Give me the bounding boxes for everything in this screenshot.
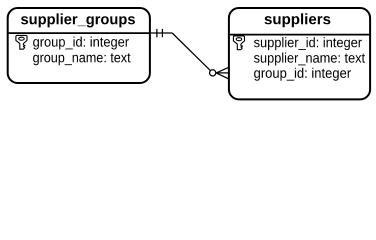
entity table supplier_groups bbox=[8, 8, 150, 83]
column group_id: integer bbox=[33, 37, 129, 50]
crow's foot many (top prong) bbox=[216, 67, 229, 73]
wire horizontal from supplier_groups bbox=[150, 32, 172, 34]
cardinality tick 1 (one) bbox=[156, 29, 158, 37]
table box suppliers bbox=[229, 8, 370, 99]
crow's foot many (middle prong) bbox=[216, 72, 229, 74]
column group_name: text bbox=[33, 53, 130, 65]
title separator line bbox=[8, 32, 150, 34]
cardinality tick 2 (one) bbox=[161, 29, 163, 37]
title separator line bbox=[229, 34, 370, 36]
relationship supplier_groups to suppliers (one to zero-or-many) bbox=[150, 29, 229, 79]
title supplier_groups bbox=[21, 13, 135, 27]
cardinality circle (zero) bbox=[210, 70, 216, 76]
wire diagonal bbox=[172, 33, 210, 71]
column supplier_name: text bbox=[254, 53, 365, 66]
crow's foot many (bottom prong) bbox=[216, 73, 229, 79]
primary key icon (group_id) bbox=[16, 35, 27, 49]
title suppliers bbox=[265, 13, 331, 27]
primary key icon (supplier_id) bbox=[233, 36, 244, 50]
column group_id: integer bbox=[254, 68, 351, 81]
column supplier_id: integer bbox=[254, 37, 362, 50]
table box supplier_groups bbox=[8, 8, 150, 83]
entity table suppliers bbox=[229, 8, 370, 99]
